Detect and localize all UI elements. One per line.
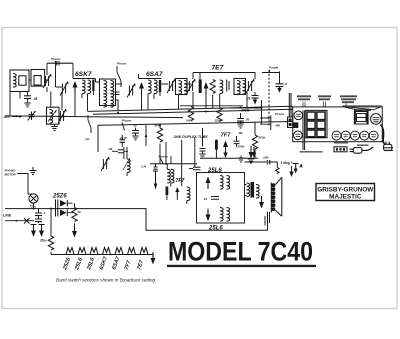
capacitor line filter [35, 209, 46, 223]
svg-text:.05: .05 [245, 118, 250, 122]
svg-text:ONE DUPLEX TUBE: ONE DUPLEX TUBE [174, 135, 209, 139]
phono switch S1 [117, 62, 126, 88]
label MODEL 7C40 [167, 237, 316, 268]
rectifier tube chassis [371, 114, 382, 125]
svg-text:250k: 250k [214, 119, 222, 123]
ground arrow duplex [252, 147, 256, 158]
wire antenna to grid [10, 80, 62, 116]
svg-text:MAJESTIC: MAJESTIC [329, 194, 362, 201]
chassis outline [293, 107, 383, 142]
svg-text:Band switch sections shown in: Band switch sections shown in Broadcast … [56, 278, 156, 283]
output transformer T5 [245, 182, 260, 198]
label antenna loop links [300, 151, 323, 153]
svg-text:Phono: Phono [122, 119, 131, 123]
svg-text:100k: 100k [186, 119, 193, 123]
grounds on output rail [248, 146, 254, 163]
svg-text:7E7: 7E7 [136, 259, 145, 271]
arrow chain end [151, 252, 156, 265]
wire AVC feedback run [5, 209, 268, 231]
leader A arrow [293, 164, 303, 174]
svg-text:6SK7: 6SK7 [99, 255, 110, 271]
svg-text:.05: .05 [33, 97, 38, 101]
resistor 150mA [188, 106, 193, 121]
ground phono [30, 167, 37, 175]
resistor 35ohm [40, 209, 54, 255]
switch section 7E7 [140, 248, 148, 255]
switch X [24, 218, 30, 224]
trimmer C4 [127, 84, 136, 98]
svg-text:Phono: Phono [51, 57, 60, 61]
LINE terminal [3, 214, 34, 222]
resistor 1500mA [217, 108, 222, 122]
antenna loop lead [303, 111, 305, 151]
capacitor 20 [132, 124, 139, 141]
rotated tube labels [62, 255, 146, 272]
resistor 500k duplex [252, 122, 265, 158]
svg-text:7F7: 7F7 [221, 133, 232, 139]
phone switch bracket [260, 100, 271, 130]
tuning gang capacitor C1 [43, 71, 52, 93]
label 100k [186, 119, 193, 123]
svg-text:.006: .006 [263, 155, 269, 159]
switch section 6SA7 [115, 248, 123, 255]
trimmer C6 [187, 79, 196, 93]
svg-text:1 Meg ⅔: 1 Meg ⅔ [281, 161, 294, 165]
oscillator coil box L2 [47, 107, 60, 124]
label Phone [275, 112, 284, 116]
wire row2 top rail [98, 122, 293, 126]
ground output [259, 196, 264, 209]
capacitor IF1 side [115, 92, 120, 95]
tube 6SA7 [139, 74, 162, 110]
coupling capacitor to 25L6 [189, 167, 201, 170]
wire band switch rail [51, 254, 153, 256]
wire mid drops [124, 125, 195, 186]
svg-text:Purple: Purple [269, 66, 279, 70]
trimmer C5 [167, 79, 176, 93]
svg-text:6SA7: 6SA7 [146, 71, 163, 78]
label 250k [214, 119, 222, 123]
wire converter plate [162, 84, 194, 109]
wire bus B+ [88, 106, 293, 111]
interstage coil pair [167, 164, 174, 187]
wire row2 left drop [97, 125, 99, 152]
capacitor 25W mid [120, 135, 126, 147]
svg-text:MOTOR: MOTOR [5, 173, 17, 177]
switch section 6SK7 [103, 248, 111, 255]
switch section 25Z6 [66, 248, 74, 255]
output transformer chassis [354, 112, 368, 125]
svg-text:6SA7: 6SA7 [111, 255, 122, 271]
callout STATION SELECTOR [297, 96, 311, 107]
tube socket chassis left upper [294, 111, 303, 120]
dial lamp block chassis [293, 122, 299, 128]
phono motor text [5, 169, 17, 177]
svg-text:25L6: 25L6 [86, 256, 97, 271]
label pm speaker [334, 142, 348, 144]
wire output top rail [200, 157, 258, 159]
wire heater bus [93, 109, 293, 114]
svg-text:75 m: 75 m [30, 205, 37, 209]
wire detector junction [180, 92, 262, 108]
svg-text:6SK7: 6SK7 [75, 71, 92, 78]
svg-text:25L6: 25L6 [207, 168, 222, 174]
IF transformer T2 [100, 79, 116, 107]
tube 25Z6 rectifier [56, 200, 73, 217]
tube 25L6 lower [206, 208, 230, 222]
padder trimmer C2 [60, 82, 69, 96]
resistor 1 MEG field [245, 160, 294, 177]
pot 500k mid [145, 134, 148, 147]
pilot lamp 75ma [28, 194, 38, 209]
antenna coil shield can T1 [10, 70, 29, 92]
switch 2W under 6SK7 [85, 115, 92, 141]
power plug [384, 142, 392, 151]
switch section 25L6 b [90, 248, 98, 255]
svg-text:35ω: 35ω [40, 239, 47, 243]
svg-text:Phono: Phono [117, 62, 126, 66]
IF can chassis [332, 131, 341, 140]
svg-text:A: A [299, 164, 303, 168]
label black cord [357, 144, 369, 146]
svg-text:.01: .01 [203, 197, 208, 201]
svg-text:4: 4 [284, 82, 287, 86]
tube 7F7 second half [166, 187, 190, 205]
wire duplex drop [202, 128, 204, 147]
capacitor .05 to ground [24, 91, 38, 107]
svg-text:20: 20 [133, 124, 138, 128]
radio outlet box [334, 147, 347, 152]
svg-text:5W: 5W [276, 124, 282, 128]
tube socket chassis left lower [294, 131, 303, 140]
capacitor .05 row2 [237, 113, 250, 128]
resistor 500k [155, 124, 163, 151]
purple shield lead (dashed) [269, 66, 279, 127]
resistor dropper [72, 203, 81, 225]
speaker [271, 177, 282, 216]
capacitor grid duplex [234, 131, 244, 147]
phono switch row2 [119, 119, 131, 141]
svg-text:4M: 4M [238, 131, 244, 135]
IF transformer T3 [176, 79, 188, 95]
svg-text:7F7: 7F7 [124, 259, 133, 271]
svg-text:.05: .05 [108, 147, 113, 151]
svg-text:25L6: 25L6 [208, 226, 223, 232]
wire antenna line [5, 116, 183, 118]
tube 7F7 first half [215, 140, 228, 159]
svg-text:250k: 250k [237, 145, 245, 149]
svg-text:25Z6: 25Z6 [62, 256, 73, 271]
capacitor coupling mid box [203, 197, 219, 202]
capacitor .01 to ground [246, 92, 259, 105]
switch section 7F7 [128, 248, 136, 255]
trimmer mid [101, 157, 110, 171]
speaker top view [343, 106, 382, 111]
svg-text:MODEL 7C40: MODEL 7C40 [168, 237, 313, 267]
svg-text:500k: 500k [259, 136, 266, 140]
svg-text:25Z6: 25Z6 [52, 194, 67, 200]
wire purple top [262, 70, 280, 73]
output stage box [197, 173, 245, 224]
electrolytic capacitor 4mf [276, 71, 287, 93]
ground below oscillator [51, 124, 57, 130]
wire phono to lamp [17, 174, 28, 195]
svg-text:300Ω: 300Ω [241, 109, 250, 113]
callout ON-OFF VOLUME [340, 96, 357, 107]
phono switch audio [159, 155, 168, 164]
svg-text:2w: 2w [85, 137, 91, 141]
junction dots [16, 106, 271, 209]
antenna terminal ANT [3, 115, 23, 119]
svg-text:GRISBY-GRUNOW: GRISBY-GRUNOW [317, 187, 374, 194]
callout BAND TONE CONTROL [318, 96, 331, 107]
svg-text:.1: .1 [43, 211, 46, 215]
switch section 25L6 a [78, 248, 86, 255]
wire 6SK7 plate [96, 82, 123, 111]
phono plug [350, 147, 374, 153]
trimmer C8 [246, 79, 255, 93]
tube row chassis [341, 131, 378, 140]
svg-text:7F7: 7F7 [176, 178, 186, 184]
connector block left of chassis [288, 93, 293, 128]
nameplate GRISBY-GRUNOW MAJESTIC [316, 184, 375, 201]
svg-text:7E7: 7E7 [212, 65, 224, 72]
phono feed wire [51, 57, 60, 87]
series capacitor antenna [28, 111, 36, 121]
oscillator coil row2 [123, 147, 130, 176]
svg-text:LINE: LINE [3, 214, 12, 218]
gang capacitor chassis [305, 110, 327, 137]
capacitor .006 [263, 155, 269, 159]
trimmer osc [58, 108, 67, 123]
wire speaker bottom [265, 212, 270, 226]
wave trap shield can [31, 70, 45, 87]
capacitor .05 mid [108, 147, 128, 153]
pot 1 MEG volume [141, 164, 158, 190]
power cord [381, 125, 386, 145]
capacitor detector out [199, 149, 205, 159]
svg-text:50: 50 [78, 210, 82, 214]
tube 7E7 [199, 80, 229, 109]
wire 7E7 top rail [193, 73, 255, 80]
svg-text:25L6: 25L6 [74, 256, 85, 271]
B+ arrow terminals [31, 225, 37, 238]
svg-text:1 M: 1 M [141, 165, 147, 169]
grid capacitor 6SK7 [47, 61, 73, 77]
wire audio rail [150, 163, 197, 165]
tube 25L6 upper [206, 176, 230, 190]
IF transformer T4 [234, 79, 246, 95]
svg-text:Phono: Phono [275, 112, 284, 116]
tube 6SK7 [73, 74, 96, 116]
label phono motor socket [384, 148, 394, 151]
